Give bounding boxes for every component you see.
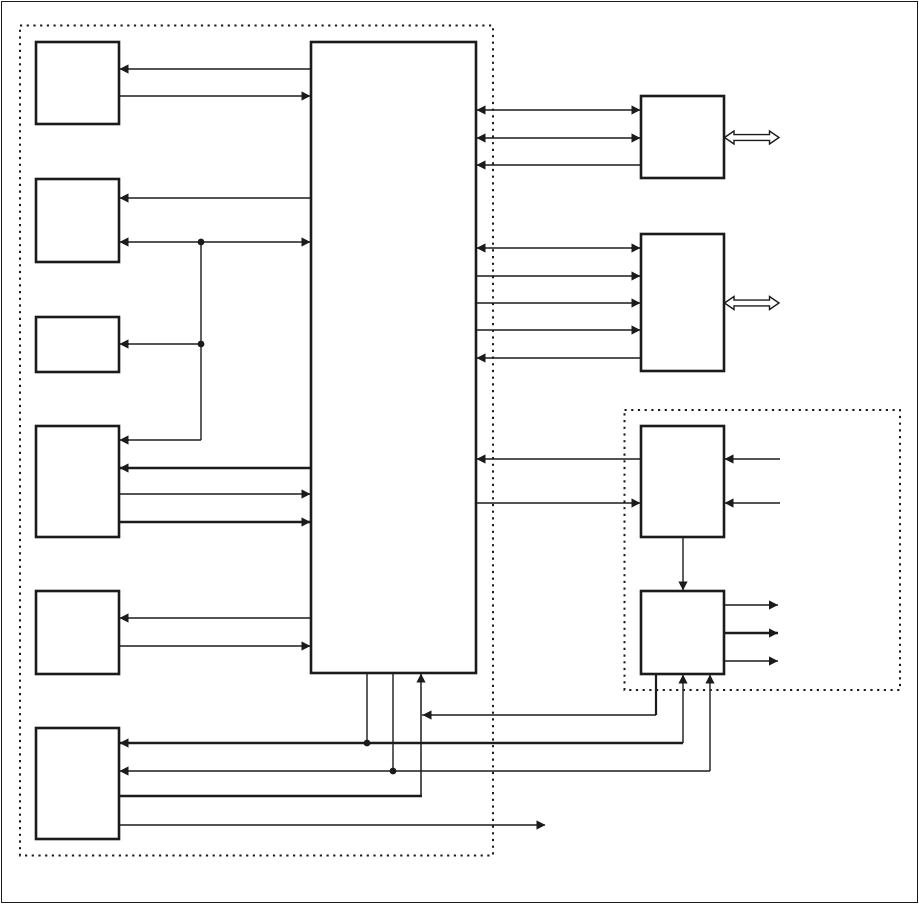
output arrow R4 (y=605)	[724, 604, 778, 606]
block B1 (top-left)	[36, 42, 119, 124]
wire CPU->R2 (y=276)	[476, 275, 641, 277]
wire CPU<->R2 (y=248)	[476, 247, 641, 249]
dotted region: lower-right subsystem	[625, 410, 901, 690]
wire CPU<->R1 (y=110)	[476, 109, 641, 111]
wire riser into R4 (x=710)	[709, 674, 711, 771]
block R3 (subsystem upper)	[641, 426, 724, 537]
wire CPU bottom tap v2 (x=393)	[392, 673, 394, 771]
dotted region: main chip boundary	[20, 26, 493, 856]
block B5	[36, 591, 119, 674]
wire tap->B3 (y=344)	[119, 343, 201, 345]
wire to B6 (y=771)	[119, 770, 710, 772]
wire CPU->R2 (y=330)	[476, 329, 641, 331]
wire riser into R4 (x=683)	[682, 674, 684, 743]
bidirectional bus arrow at R1	[725, 131, 780, 144]
wire B2<->CPU (y=242)	[119, 241, 311, 243]
wire B4->CPU (y=494)	[119, 493, 311, 495]
wire R2->CPU (y=358)	[476, 357, 641, 359]
wire B4->CPU thick (y=522)	[119, 521, 311, 523]
wire R1->CPU (y=165)	[476, 164, 641, 166]
wire B1->CPU (y=96)	[119, 95, 311, 97]
external input stub to R3 (y=459)	[724, 458, 780, 460]
wire CPU->B2 (y=198)	[119, 197, 311, 199]
wire thick bus to B6 (y=743)	[119, 742, 683, 744]
junction dot (201,242)	[198, 239, 205, 246]
wire CPU->B4 thick (y=468)	[119, 467, 311, 469]
wire CPU->R2 (y=303)	[476, 302, 641, 304]
wire CPU<->R1 (y=138)	[476, 137, 641, 139]
block R1 (top-right port)	[641, 96, 724, 178]
output arrow R4 (y=661)	[724, 660, 778, 662]
block B4	[36, 426, 119, 537]
bidirectional bus arrow at R2	[725, 297, 780, 310]
junction dot (201,344)	[198, 341, 205, 348]
junction dot (367,743)	[364, 740, 371, 747]
wire R3->CPU (y=459)	[476, 458, 641, 460]
output arrow R4 thick (y=633)	[724, 632, 778, 634]
wire R3->R4 vertical	[682, 537, 684, 591]
external input stub to R3 (y=503)	[724, 502, 780, 504]
wire CPU->B5 (y=618)	[119, 617, 311, 619]
wire R4->v3 (y=715)	[422, 714, 656, 716]
block B2	[36, 179, 119, 262]
wire B5->CPU (y=646)	[119, 645, 311, 647]
block R4 (subsystem lower)	[641, 591, 724, 674]
wire B6 output arrow (y=825)	[119, 824, 545, 826]
block B6 (bottom-left)	[36, 728, 119, 839]
block B3	[36, 317, 119, 372]
junction dot (393,771)	[390, 768, 397, 775]
wire R4 bottom drop (x=656)	[655, 674, 657, 715]
wire vertical tap x=201	[200, 242, 202, 440]
wire CPU->R3 (y=503)	[476, 502, 641, 504]
wire CPU bottom tap v1 (x=367)	[366, 673, 368, 743]
block CPU (central core)	[311, 42, 476, 673]
wire tap->B4 (y=440)	[119, 439, 201, 441]
block R2 (right port)	[641, 234, 724, 371]
wire B6 thick output (y=796)	[119, 795, 422, 797]
wire CPU->B1 (y=69)	[119, 68, 311, 70]
wire v3 into CPU bottom (x=421)	[420, 673, 422, 796]
